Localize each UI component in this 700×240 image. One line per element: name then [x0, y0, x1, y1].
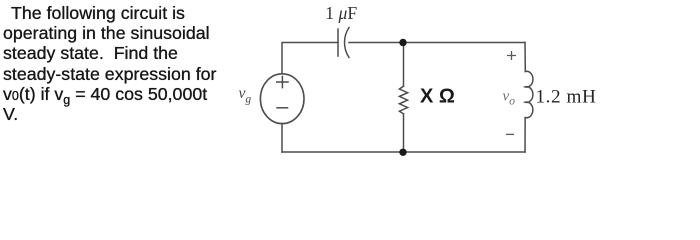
label 1 uF [325, 3, 357, 23]
svg-text:vo: vo [503, 89, 516, 108]
node dot bottom [399, 149, 406, 156]
problem statement text [3, 3, 233, 124]
label X ohm [420, 85, 455, 107]
wire resistor branch upper [403, 43, 405, 87]
wire right vertical lower from inductor to bottom [524, 118, 526, 152]
label minus at inductor [506, 133, 514, 135]
voltage source vg circle [260, 74, 304, 124]
wire right vertical upper to inductor [524, 43, 526, 72]
wire top-left from capacitor to source top [282, 43, 338, 74]
wire source bottom stub [281, 124, 283, 153]
minus sign inside source [277, 107, 288, 109]
plus sign inside source [277, 76, 288, 87]
wire bottom [282, 151, 525, 153]
svg-text:1 μF: 1 μF [325, 3, 357, 23]
svg-text:1.2 mH: 1.2 mH [536, 86, 597, 107]
label vg [239, 85, 252, 106]
resistor R X ohm zigzag [399, 86, 407, 114]
node dot top [399, 39, 406, 46]
svg-text:X Ω: X Ω [420, 85, 455, 107]
label 1.2 mH [536, 86, 597, 107]
inductor L1 coil 1.2 mH [525, 71, 533, 118]
capacitor C 1uF plates [338, 28, 349, 58]
label plus at inductor [507, 51, 516, 60]
label vo [503, 89, 516, 108]
wire resistor branch lower [403, 114, 405, 152]
svg-text:vg: vg [239, 85, 252, 106]
wire top from capacitor to top-right corner [349, 42, 525, 44]
